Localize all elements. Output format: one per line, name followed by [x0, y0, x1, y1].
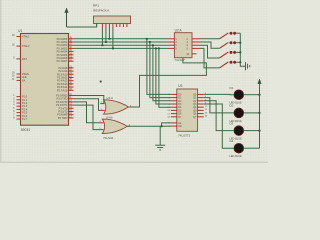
wire P3.0 to U4:A in1 — [74, 96, 104, 104]
U3 control pins LE OE — [171, 123, 177, 126]
wire U2 out2 to SW2 — [199, 42, 220, 48]
svg-text:D1: D1 — [230, 86, 234, 90]
U1 left pins (XTAL1,XTAL2,RST,PSEN,ALE,EA) — [17, 37, 21, 81]
switch SW3 — [220, 51, 237, 58]
wire P3.2 to U4:B in1 — [74, 102, 100, 123]
U4:A pin numbers — [101, 102, 132, 111]
junction dots P0 branches — [146, 38, 160, 50]
U1 right pin name labels P0 — [57, 38, 68, 63]
wire U2 out3 to SW3 — [199, 45, 220, 58]
wire P0.3 — [74, 47, 168, 49]
svg-text:D4: D4 — [230, 139, 234, 143]
wire RP1 pin3 to P0.1 — [105, 27, 107, 42]
U1 left pins P1.0-P1.7 — [17, 97, 21, 119]
wire U3 Q2 to D3 — [204, 101, 234, 131]
stray origin dot — [100, 80, 102, 82]
junction dots RP1/P0 — [101, 38, 114, 50]
U1 right pins P2.0-P2.7 — [69, 68, 74, 90]
power VCC arrow right — [258, 79, 262, 84]
U4:B output pin — [127, 125, 130, 127]
U3 right pin numbers — [205, 93, 208, 118]
OR gate U4:A — [104, 100, 129, 114]
OR gate U4:B — [102, 119, 127, 133]
junction dots switch bus — [239, 42, 241, 64]
wire RP1 pin5 to P0.3 — [112, 27, 114, 48]
power VCC arrow top left — [65, 8, 69, 27]
wire U2 out4 to SW4 — [199, 48, 220, 68]
U3 right pins Q0-Q7 — [197, 94, 203, 116]
svg-text:LED-BLUE: LED-BLUE — [230, 155, 243, 158]
U3 left pin numbers — [167, 94, 170, 128]
svg-text:D3: D3 — [230, 121, 234, 125]
RP1 pins 2-9 — [102, 24, 127, 28]
svg-text:74LS373: 74LS373 — [178, 134, 190, 138]
svg-text:RESPACK-8: RESPACK-8 — [93, 9, 109, 13]
svg-text:XTAL1: XTAL1 — [22, 36, 30, 39]
wire D3 to VCC bus — [244, 130, 260, 132]
wire P3.1 to U4:A in2 — [74, 99, 101, 111]
U4:A input pins — [100, 104, 104, 111]
U2 right pins — [192, 39, 199, 54]
wire RP1 pin4 to P0.0 — [108, 27, 110, 39]
ground symbol right (switches) — [245, 62, 249, 70]
U1 right pin name labels P3 — [56, 95, 68, 120]
U3 pin name labels — [178, 93, 182, 128]
LED D3 — [234, 126, 244, 136]
svg-text:P1.7: P1.7 — [22, 118, 28, 121]
svg-text:OE: OE — [178, 125, 182, 128]
svg-text:EA: EA — [22, 79, 26, 82]
svg-text:89C51: 89C51 — [21, 128, 31, 132]
wire P0.1 — [74, 41, 168, 43]
wire U3 Q3 to D4 — [204, 104, 234, 148]
wire P0.0 — [74, 38, 168, 40]
wire SW4 to bus — [236, 61, 240, 63]
U2 left pins — [168, 39, 175, 49]
wire SW1 to bus — [236, 32, 240, 34]
buffer U2 body — [174, 33, 192, 58]
U1 right pins P3.0-P3.7 — [69, 96, 74, 118]
U2 bottom pin — [182, 58, 184, 61]
wire U4:B output to U3 LE — [127, 123, 171, 126]
U4:A output pin — [128, 106, 131, 108]
U1 right pin name labels P2 — [57, 67, 68, 92]
wire P3.3 to U4:B in2 — [74, 105, 100, 130]
wire SW2 to bus — [236, 42, 240, 44]
svg-text:U2:A: U2:A — [175, 29, 183, 33]
wire D2 to VCC bus — [244, 112, 260, 114]
wire D4 to VCC bus — [244, 147, 260, 149]
wire ground stem mid — [159, 126, 161, 145]
switch SW2 — [220, 41, 237, 48]
svg-text:U1: U1 — [18, 29, 22, 33]
window edge left — [0, 0, 1, 163]
wire U3 Q1 to D2 — [204, 98, 234, 113]
U2 pin numbers — [175, 39, 189, 56]
switch SW4 — [220, 61, 237, 68]
U4:B input pins — [99, 123, 103, 130]
U4:B pin numbers — [99, 121, 130, 130]
svg-text:P3.7/RD: P3.7/RD — [58, 117, 68, 120]
svg-text:U3: U3 — [178, 84, 182, 88]
U1 left pin numbers — [12, 35, 15, 120]
U3 left pins D0-D7 — [171, 94, 177, 116]
svg-text:XTAL2: XTAL2 — [22, 45, 30, 48]
wire U4:A output to U2 enable — [129, 60, 207, 107]
LED D4 — [234, 143, 244, 153]
LED D1 — [234, 90, 244, 100]
wire branch P0.2 to U3 D2 — [153, 45, 171, 101]
window edge bottom — [0, 162, 268, 163]
latch U3 body — [177, 89, 198, 131]
wire VCC bus right — [259, 83, 261, 148]
junction dots VCC bus — [258, 94, 260, 132]
svg-text:74LS32: 74LS32 — [103, 136, 114, 140]
wire P0.2 — [74, 44, 168, 46]
RP1 common pin 1 — [96, 24, 98, 28]
svg-text:74LS07: 74LS07 — [174, 58, 185, 62]
wire branch to U3 D4 — [159, 48, 171, 107]
svg-text:P2.7/A15: P2.7/A15 — [57, 89, 68, 92]
svg-text:RST: RST — [22, 58, 27, 61]
microcontroller U1 body — [21, 34, 69, 126]
wire U2 out1 to SW1 — [199, 38, 220, 40]
svg-text:P0.7/AD7: P0.7/AD7 — [57, 60, 68, 63]
switch SW1 — [220, 32, 237, 39]
wire U3 Q0 to D1 — [204, 93, 234, 95]
wire branch P0.1 to U3 D1 — [150, 42, 171, 98]
ground symbol mid — [155, 145, 165, 150]
svg-text:D2: D2 — [230, 104, 234, 108]
wire branch P0.0 to U3 D0 — [147, 39, 171, 95]
wire branch P0.3 to U3 D3 — [156, 48, 171, 104]
junction dot gate B output — [161, 125, 163, 127]
wire U4:B output to U3 OE — [162, 125, 171, 127]
U1 right pin numbers — [69, 37, 72, 118]
wire switch ground bus — [240, 33, 245, 66]
U1 left pin name labels — [22, 36, 30, 122]
wire D1 to VCC bus — [244, 94, 260, 96]
wire SW3 to bus — [236, 51, 240, 53]
LED D2 — [234, 108, 244, 118]
wire RP1 pin2 to P0.2 — [101, 27, 103, 45]
svg-text:RP1: RP1 — [93, 4, 99, 8]
U1 right pins P0.0-P0.7 — [69, 39, 74, 61]
resistor pack RP1 body — [94, 16, 131, 24]
wire VCC to RP1 pin1 — [67, 24, 97, 28]
